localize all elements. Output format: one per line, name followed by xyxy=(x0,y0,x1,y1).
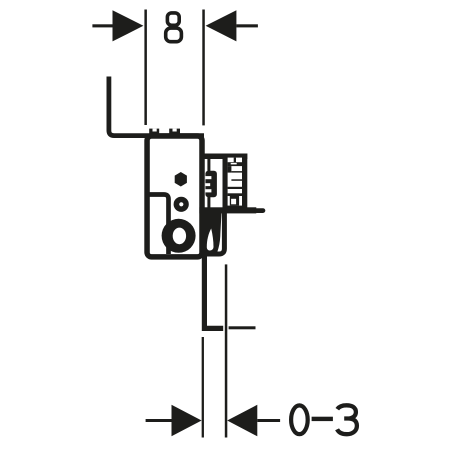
fixing tab 2 on top of body xyxy=(169,129,180,134)
dimension text 8 (lower bowl) xyxy=(166,28,182,42)
extension line 2 (bottom dim) xyxy=(225,264,228,437)
flush bend teardrop opening xyxy=(207,229,214,251)
dimension arrow right (top dim 8) xyxy=(206,10,237,41)
rib band 1 xyxy=(228,162,242,166)
dimension tail line right (top dim 8) xyxy=(236,24,258,27)
mid horizontal bar xyxy=(199,207,256,213)
mounting body outline xyxy=(147,136,202,257)
top connector bar to valve assembly xyxy=(202,154,247,160)
fixing tab 1 on top of body xyxy=(149,129,159,134)
valve stem upper line xyxy=(207,159,210,172)
rib band 2 xyxy=(228,193,242,196)
dimension text dash xyxy=(312,417,333,421)
wall bracket L-profile xyxy=(109,77,204,136)
rib left block xyxy=(228,166,232,173)
mid bar rounded extension xyxy=(254,208,265,213)
dimension arrow left (top dim 8) xyxy=(113,10,144,41)
dimension text 3 xyxy=(337,405,357,434)
ribbed assembly outer block xyxy=(223,154,248,211)
dimension tail line left (top dim 8) xyxy=(92,24,112,27)
ribbed assembly interior xyxy=(228,158,242,206)
dimension tail line right (bottom dim 0-3) xyxy=(257,419,280,422)
internal partition line xyxy=(149,195,169,255)
dimension tail line left (bottom dim 0-3) xyxy=(146,419,172,422)
pocket frame right and bottom xyxy=(202,213,224,254)
rib divider top xyxy=(234,158,236,163)
rib line 1 xyxy=(231,171,242,173)
floor reference line right xyxy=(229,326,256,329)
rib bottom block xyxy=(230,196,239,206)
valve capsule xyxy=(205,171,217,198)
hexagon nut xyxy=(175,172,187,187)
flush bend (swoosh) xyxy=(200,213,221,252)
small circle with hole xyxy=(174,197,189,212)
extension line 1 (bottom dim) xyxy=(202,337,204,438)
dimension text 0 xyxy=(291,405,308,434)
large ring (pipe socket) xyxy=(162,219,196,253)
extension line 1 (top dim 8) xyxy=(144,10,147,126)
dimension arrow left (bottom dim 0-3) xyxy=(172,405,202,437)
dimension text 8 (upper bowl) xyxy=(167,13,179,25)
dimension arrow right (bottom dim 0-3) xyxy=(227,405,257,437)
valve stem lower line xyxy=(207,197,210,209)
descending bar with foot xyxy=(204,254,223,328)
rib line 2 xyxy=(231,179,242,181)
rib line 3 xyxy=(228,187,242,189)
extension line 2 (top dim 8) xyxy=(202,10,205,126)
